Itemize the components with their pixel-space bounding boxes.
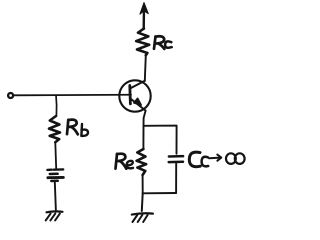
transistor Q1 [119, 80, 150, 111]
Rb value label [67, 120, 88, 136]
input terminal [8, 93, 13, 98]
resistor Rc [136, 29, 149, 56]
capacitor Cc [169, 156, 183, 162]
wire capacitor to bottom [175, 163, 177, 193]
wire battery to ground [55, 182, 56, 211]
Vcc supply arrow [140, 3, 148, 30]
arrow to infinity [209, 155, 221, 161]
infinity symbol [226, 153, 245, 164]
wire Rc to collector [145, 55, 146, 81]
wire Re to bottom node [142, 175, 144, 193]
wire emitter to Re [142, 126, 144, 150]
resistor Re [137, 149, 147, 175]
wire bottom node [143, 192, 176, 194]
Cc value label [189, 152, 208, 167]
ground (left) [46, 211, 63, 220]
wire base [13, 94, 131, 97]
wire node to ground [141, 193, 144, 211]
Rc value label [154, 36, 172, 49]
Re value label [116, 154, 134, 169]
wire base junction to Rb [55, 95, 58, 116]
wire emitter node to capacitor branch [144, 126, 177, 154]
wire emitter down [144, 111, 146, 126]
ground (bottom) [132, 213, 153, 222]
resistor Rb [49, 116, 60, 142]
wire Rb to battery [54, 142, 57, 169]
battery V1 [47, 169, 63, 181]
